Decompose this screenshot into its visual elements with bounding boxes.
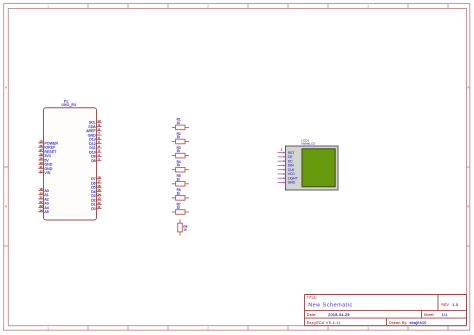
- svg-text:1k: 1k: [177, 149, 181, 153]
- svg-text:2: 2: [207, 326, 209, 330]
- svg-text:D0: D0: [91, 207, 96, 211]
- LCD green screen: [302, 149, 335, 187]
- svg-text:24: 24: [39, 208, 43, 212]
- svg-text:1k: 1k: [183, 228, 187, 232]
- svg-text:32: 32: [39, 169, 43, 173]
- resistor R7 1k: [172, 202, 189, 214]
- svg-text:VIN: VIN: [44, 171, 50, 175]
- svg-text:Date:: Date:: [307, 313, 317, 317]
- svg-text:2: 2: [207, 4, 209, 8]
- resistor R5 1k: [172, 174, 189, 186]
- svg-text:Drawn By:: Drawn By:: [389, 321, 407, 325]
- microcontroller board P1 UNO R3: [38, 100, 101, 220]
- pin AREF (pin 8): [86, 127, 101, 133]
- pin A2 (pin 21): [38, 196, 48, 202]
- svg-text:1/1: 1/1: [442, 313, 448, 317]
- pin GND (pin 30): [38, 161, 52, 167]
- resistor R4 1k: [172, 160, 189, 172]
- svg-text:NokiaLCD: NokiaLCD: [301, 142, 316, 146]
- pin D8 (pin 1): [91, 157, 102, 163]
- pin CLK (pin 5): [278, 168, 295, 172]
- svg-text:REV: REV: [441, 303, 449, 307]
- svg-text:1k: 1k: [177, 191, 181, 195]
- svg-text:11: 11: [97, 205, 100, 209]
- pin IOREF (pin 26): [38, 144, 56, 150]
- pin RESET (pin 27): [38, 148, 57, 154]
- svg-text:3: 3: [367, 4, 369, 8]
- svg-text:D8: D8: [91, 159, 96, 163]
- svg-text:UNO_R3: UNO_R3: [62, 103, 77, 107]
- pin A0 (pin 19): [38, 187, 48, 193]
- pin D2 (pin 13): [91, 197, 102, 203]
- pin 3V3 (pin 28): [38, 152, 50, 158]
- pin A5 (pin 24): [38, 208, 48, 214]
- svg-text:1k: 1k: [177, 206, 181, 210]
- pin D9 (pin 2): [91, 153, 102, 159]
- svg-text:EasyEDA V5.4.11: EasyEDA V5.4.11: [307, 321, 341, 325]
- svg-text:1k: 1k: [177, 163, 181, 167]
- pin GND (pin 31): [38, 165, 52, 171]
- pin POWER (pin 25): [38, 140, 58, 146]
- pin D0 (pin 11): [91, 205, 102, 211]
- resistor R3 1k: [172, 146, 189, 158]
- pin A3 (pin 22): [38, 200, 48, 206]
- svg-text:1: 1: [47, 4, 49, 8]
- pin DC (pin 3): [278, 159, 294, 163]
- pin D3 (pin 14): [91, 192, 102, 198]
- svg-text:Sheet:: Sheet:: [424, 313, 435, 317]
- svg-text:1k: 1k: [177, 177, 181, 181]
- pin D4 (pin 15): [91, 188, 102, 194]
- pin VIN (pin 32): [38, 169, 50, 175]
- pin CE (pin 2): [278, 155, 294, 159]
- pin D7 (pin 18): [91, 175, 102, 181]
- pin D11 (pin 4): [89, 144, 101, 150]
- pin GND (pin 7): [88, 132, 102, 138]
- svg-text:A5: A5: [44, 210, 48, 214]
- resistor R2 1k: [172, 132, 189, 144]
- pin SCL (pin 10): [89, 119, 102, 125]
- pin SDA (pin 9): [88, 123, 101, 129]
- resistor R8 1k: [178, 219, 188, 235]
- pin D5 (pin 16): [91, 184, 102, 190]
- pin D6 (pin 17): [91, 180, 102, 186]
- pin A1 (pin 20): [38, 191, 48, 197]
- resistor R1 1k: [172, 118, 189, 130]
- svg-text:2018-04-29: 2018-04-29: [328, 313, 349, 317]
- svg-text:1.0: 1.0: [452, 303, 458, 307]
- pin LIGHT (pin 7): [278, 176, 298, 180]
- svg-text:3: 3: [367, 326, 369, 330]
- svg-text:1: 1: [47, 326, 49, 330]
- pin 5V (pin 29): [38, 157, 49, 163]
- pin A4 (pin 23): [38, 204, 48, 210]
- UNO R3 body outline: [44, 108, 97, 220]
- pin VCC (pin 6): [278, 172, 296, 176]
- pin D12 (pin 5): [89, 140, 101, 146]
- pin D1 (pin 12): [91, 201, 102, 207]
- svg-text:New Schematic: New Schematic: [308, 302, 353, 308]
- resistor R6 1k: [172, 188, 189, 200]
- svg-text:1k: 1k: [177, 121, 181, 125]
- svg-text:1k: 1k: [177, 135, 181, 139]
- svg-text:GND: GND: [288, 181, 296, 185]
- pin GND (pin 8): [278, 181, 296, 185]
- pin D13 (pin 6): [89, 136, 101, 142]
- svg-text:sbajith10: sbajith10: [410, 321, 427, 325]
- LCD module LCD1 NokiaLCD: [278, 138, 338, 190]
- pin RST (pin 1): [278, 151, 295, 155]
- pin D10 (pin 3): [89, 149, 101, 155]
- svg-text:TITLE:: TITLE:: [307, 295, 317, 299]
- pin DIN (pin 4): [278, 164, 294, 168]
- LCD body: [286, 146, 339, 190]
